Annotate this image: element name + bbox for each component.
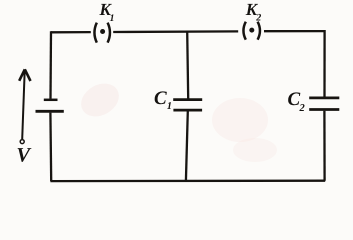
capacitor C1: top plate [173,98,202,101]
wire: middle branch, capacitor C1 down to bottom node [186,111,188,181]
capacitor C2: bottom plate [309,108,339,111]
svg-text:1: 1 [167,101,172,112]
battery V (cell): long - plate [36,110,64,113]
wire: right branch, capacitor C2 down to bottom-right corner [323,111,326,181]
background smudge [75,77,125,123]
svg-text:V: V [16,144,32,166]
wire: left branch, top-left corner down to battery + plate [49,31,52,98]
wire: switch K2 to top-right corner [264,30,325,32]
switch K1 (press-button contact): left paren [94,23,96,43]
background smudge [233,138,277,162]
arrow head [19,69,30,81]
wire: switch K1 to switch K2 (through top node of middle branch) [113,30,238,33]
switch K2 (press-button contact): left paren [243,22,245,40]
capacitor C1: bottom plate [173,109,202,112]
wire: top-left corner to switch K1 [51,31,91,34]
switch K2: right paren [258,22,260,40]
svg-text:2: 2 [255,13,261,24]
wire: middle branch, top node down to capacitor C1 [187,31,188,98]
capacitor C2: top plate [309,97,339,100]
svg-text:C: C [154,88,167,109]
arrow tail terminal circle [20,140,24,144]
svg-text:2: 2 [299,103,306,114]
background smudge [212,98,268,142]
switch K1: right paren [108,23,110,43]
switch K2: contact dot [249,28,254,33]
battery V (cell): short + plate [44,99,58,102]
wire: right branch, top-right corner down to capacitor C2 [323,30,325,97]
svg-text:1: 1 [110,13,115,24]
switch K1: contact dot [100,29,105,34]
arrow for source voltage V: shaft [22,71,25,140]
wire: left branch, battery - plate down to bottom-left corner [49,113,52,182]
wire: bottom rail, bottom-left corner to bottom-right corner [50,180,325,183]
